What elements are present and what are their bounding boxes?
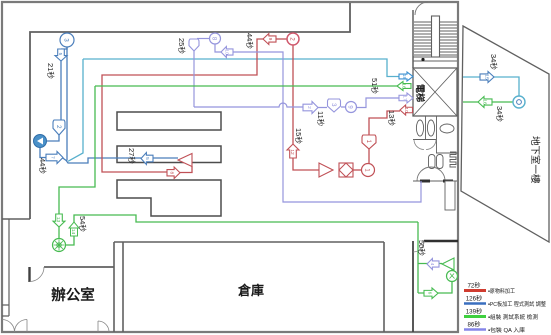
room green circle [447,271,458,282]
svg-text:10: 10 [403,107,409,113]
wire cyan basement run [463,77,519,96]
blue pump circle [34,135,47,148]
bottom-right room top wall [424,240,458,242]
bath door swing arc [417,167,445,181]
svg-text:8: 8 [169,171,175,174]
svg-text:5: 5 [57,53,63,56]
stair door arc [415,2,428,15]
wire shield2 to pump [47,135,59,141]
svg-text:27秒: 27秒 [127,148,137,164]
svg-text:15秒: 15秒 [294,128,304,144]
stair left wall [412,10,414,68]
svg-text:7: 7 [50,156,56,159]
red shield 1 [362,135,376,149]
bottom-right room left wall [412,241,414,332]
blue arrow 44秒 [46,152,63,164]
red arrow 12 up [287,144,299,158]
door arc right of office [98,321,109,332]
svg-text:10: 10 [224,49,230,55]
wire circle8 to shield17 [197,38,210,40]
wire circle8 to arrow10 [215,44,221,52]
washbasin oval [440,124,454,133]
work bench 2 [117,146,221,163]
red arrow left at elevator [400,105,413,115]
svg-text:9: 9 [267,38,273,41]
svg-text:11秒: 11秒 [316,111,326,127]
wire green basement return [463,101,513,103]
wire main blue horizontal [62,158,178,164]
elevator shaft [413,68,457,116]
red diamond box [339,163,353,177]
wire gear to cylinder [66,236,75,245]
svg-text:13: 13 [55,217,61,223]
work bench 3 L-shaped [117,180,221,216]
svg-text:14: 14 [70,229,76,235]
blue shield 2 [53,120,65,135]
wire circle3 to arrow5 [61,47,67,49]
bathroom bottom wall [413,180,457,182]
svg-text:34秒: 34秒 [489,54,499,70]
duct column [445,181,455,210]
svg-text:16: 16 [482,99,488,105]
bottom-right room door arc [413,241,424,252]
svg-text:4: 4 [429,263,435,266]
office right wall [113,242,115,332]
stair landing lines [413,57,457,61]
svg-text:▪原物料加工: ▪原物料加工 [488,287,515,295]
room lavender arrow left [427,259,439,270]
wire arrow10 to corridor [233,52,421,202]
bath stall dividers [426,116,437,153]
stall wall [413,139,436,141]
green cylinder 54秒 [69,222,79,228]
blue arrow 27秒 [141,153,153,165]
svg-text:86秒: 86秒 [467,321,480,329]
svg-text:25秒: 25秒 [177,38,187,54]
wire red shield1 to elevator arrow [369,111,400,135]
bath divider wall [436,152,458,154]
warehouse right wall [383,242,385,332]
office door leaf [28,267,30,282]
blue arrow 18 at elevator [399,72,413,81]
svg-text:辦公室: 辦公室 [51,286,95,304]
double door office bottom [2,320,15,333]
wire green bottom room loop [418,222,452,293]
basement blue arrow 34秒 [480,72,494,83]
wire cyan top horizontal to elevator [83,59,400,77]
radiator [450,152,456,167]
red circle 1 [362,164,375,177]
svg-text:13秒: 13秒 [387,110,397,126]
wire arrow5 to shield2 [60,61,62,120]
svg-text:17: 17 [402,95,408,101]
lavender circle 9 [346,102,357,113]
svg-text:15: 15 [484,74,490,80]
lavender arrow 10 [221,47,233,58]
svg-text:44秒: 44秒 [245,33,255,49]
wire red top elbow long [102,39,263,172]
wire red arrow12 to triangle2 [293,158,319,170]
left corridor wall [2,219,9,316]
office door arc [30,267,45,282]
svg-text:34秒: 34秒 [495,106,505,122]
red arrow 8 [167,167,180,179]
stair treads [414,22,457,55]
svg-text:▪包裝 QA 入庫: ▪包裝 QA 入庫 [488,326,525,334]
svg-text:▪PC板加工 程式測試 調整: ▪PC板加工 程式測試 調整 [488,300,546,308]
stall door arcs [414,140,424,150]
wire lavender loop bottom with hop [194,103,303,107]
svg-text:139秒: 139秒 [466,308,483,316]
wire red diamond to circle1 [353,169,361,171]
red triangle left [178,154,192,167]
office top wall [44,266,114,268]
svg-text:72秒: 72秒 [467,282,480,290]
sink 2 [437,155,444,169]
svg-text:12: 12 [289,149,295,155]
svg-text:51秒: 51秒 [370,78,380,94]
svg-text:2: 2 [306,106,312,109]
svg-text:54秒: 54秒 [78,216,88,232]
wire lavender chain to elevator [318,98,399,108]
svg-text:126秒: 126秒 [466,295,483,303]
warehouse top wall [114,241,384,243]
toilet 2 [427,120,434,136]
wire red arrow8 to triangle [180,166,192,173]
blue down arrow [55,49,67,61]
wire green left down [59,86,95,214]
svg-text:地下室一樓: 地下室一樓 [529,136,541,184]
wire cyan left vertical merge [68,59,83,161]
green down arrow 13 [53,214,65,227]
wire red circle1 to shield1 [368,149,370,164]
basement machine circle [513,96,525,108]
lavender shield 17 [189,39,199,51]
svg-text:6: 6 [427,292,433,295]
green gear circle [53,239,66,252]
work bench 1 [117,112,221,130]
red arrow 9 [263,34,276,45]
svg-text:44秒: 44秒 [38,158,48,174]
svg-text:50秒: 50秒 [417,240,427,256]
stair stringer [432,16,440,57]
wire red machine to arrow9 [276,38,287,40]
lavender circle 8 [210,33,221,44]
sink 1 [429,155,436,169]
room green triangle [442,258,454,270]
wire green main horizontal [95,85,398,87]
toilet 1 [416,120,423,136]
red machine circle [287,33,299,45]
basement green arrow 34秒 [478,97,492,108]
svg-text:16: 16 [401,83,407,89]
svg-text:倉庫: 倉庫 [237,283,264,298]
svg-text:21秒: 21秒 [46,63,56,79]
wire arrow13 to gear [58,227,60,239]
lavender arrow 2 right [303,102,318,114]
wire pump to arrow44 [40,148,46,158]
svg-text:18: 18 [401,74,407,80]
lavender shield 3 [328,99,341,112]
wire red machine down [292,45,294,144]
room green arrow right [424,288,438,299]
blue circle 3 [60,33,74,47]
wire shield17 down [193,51,195,107]
red triangle right [319,163,333,177]
basement outline [461,26,549,242]
wire cylinder corridor run [74,215,418,222]
svg-text:5: 5 [144,157,150,160]
wire circle3 down to merge [66,47,68,161]
svg-text:電梯: 電梯 [415,84,426,102]
svg-text:▪組裝 測試系統 檢測: ▪組裝 測試系統 檢測 [488,313,538,321]
production room wall [30,3,350,219]
left room bottom wall [2,218,30,220]
warehouse left wall [122,242,124,332]
stair newel dot [421,58,424,61]
green arrow 51秒 at elevator [397,82,411,91]
lavender arrow to elevator [399,93,413,103]
